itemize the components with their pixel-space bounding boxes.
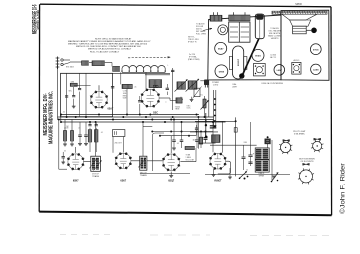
filter capacitor C13 electrolytic [248,154,252,156]
svg-text:.1: .1 [165,102,166,104]
capacitor C12 dark bar [210,125,217,127]
svg-text:ROLLER: ROLLER [196,26,204,28]
osc coil trim box T1 [176,98,182,103]
resistor R5a vertical [88,130,92,142]
ground right of V6 [229,168,231,177]
resistor R3 [63,131,66,142]
svg-text:115V: 115V [193,140,198,142]
tube V6 6V6GT output [210,153,226,169]
capacitor on shield right edge [111,86,114,88]
tuning condenser gang [229,22,250,42]
chassis tube 6X5 capsule [233,46,244,79]
wire V1 grid to loop [98,85,100,91]
IF transformer T3 1st IF [91,156,101,171]
wire segment y126.5 [143,126,152,128]
svg-text:L: L [168,65,169,67]
svg-text:6SQ7: 6SQ7 [168,180,175,182]
wire output rail y145 [210,144,257,146]
svg-text:.05: .05 [177,143,179,145]
svg-text:VOL CONT: VOL CONT [186,159,195,161]
wire left bus vertical [57,86,59,120]
external antenna terminal [57,57,59,70]
speaker basket [282,14,317,20]
resistor block R1 [122,84,132,88]
osc padder box C4 with arrow [188,81,197,90]
svg-text:40: 40 [246,170,248,172]
ground below R4 [70,143,74,145]
svg-text:20M: 20M [244,142,248,144]
wire bus B y117 [58,116,214,118]
wire V5 top [170,136,172,154]
loop coupling coil L1b [92,61,105,66]
wire bus A y114.5 [61,114,199,116]
dial scale posts [212,12,214,15]
wire T4 top [142,122,144,156]
capacitor C8 AVC [172,139,176,141]
svg-text:TRICO JRU: TRICO JRU [188,39,199,41]
power plug below chassis [204,80,209,86]
on-off switch SW1 [272,173,279,182]
svg-text:SPKR: SPKR [295,3,302,6]
wire V5 to V6 coupling [180,161,196,163]
speaker frame trapezoid [290,20,311,26]
capacitor C5a [171,69,174,71]
capacitor above R5b [95,124,98,126]
socket S1 bottom view [280,142,290,152]
svg-text:IF BOT R: IF BOT R [188,41,197,43]
dial lamp resistor box [265,139,271,144]
switch SW2 arrow left [240,171,247,178]
svg-text:10M: 10M [123,93,127,95]
svg-text:1 MEG: 1 MEG [186,157,192,159]
page frame right border [330,7,333,215]
dashed shield line with arrow [128,56,170,59]
svg-text:6SK7: 6SK7 [120,180,126,182]
tube V3 6SK7 IF amp [68,154,84,170]
page frame bottom border [39,212,331,216]
loop coil L1c [113,66,120,71]
wire vertical x272 [271,140,273,180]
chassis tube 6SK7GT circle right [274,65,285,76]
antenna trimmer circle in chassis [218,25,228,35]
wire vertical x86 [85,73,87,116]
wire V6 top leads [212,122,214,152]
speaker terminal knob [311,28,317,34]
shield inner vertical x66.6 [66,73,68,116]
tuning gang trimmer band [229,15,250,21]
chassis tube 6SK7 circle [215,65,228,78]
svg-text:.05: .05 [78,127,80,129]
resistor block R8 [212,135,221,143]
capacitor above R5a [88,124,91,126]
capacitor C1b [78,87,81,89]
svg-text:POWER: POWER [212,82,219,84]
wire osc right links [200,80,209,82]
gang trimmer posts [233,12,235,15]
capacitor C10 [195,139,199,141]
osc trim box C5 [194,88,200,97]
chassis tube 6SQ7 circle [252,49,264,61]
svg-text:OF SOCKETS: OF SOCKETS [301,161,315,163]
speaker magnet [293,26,307,34]
wire R5 bottoms [89,142,91,152]
svg-text:6SK7: 6SK7 [73,180,79,182]
svg-text:.1: .1 [141,117,142,119]
chassis tube 6SA7 circle [215,42,227,54]
V2 top pin jacks [153,85,155,87]
faint fold dashes below page [60,234,110,236]
oscillator coil box L2 [149,80,162,88]
wire V2 plate to T1 [159,97,170,99]
svg-text:2ND DET: 2ND DET [115,143,122,145]
svg-text:.05: .05 [134,87,136,89]
tube V4 6SK7 2nd IF [116,153,131,168]
svg-text:LIGHT: LIGHT [232,87,238,89]
ground below C16 [61,161,65,163]
bowtie above S3 [303,163,310,165]
capacitor left of V2 [138,100,141,102]
wire V2 top [145,72,147,89]
output transformer T5 and field coil [255,148,269,159]
osc section caps and grounds [180,97,182,100]
ground below C8 [172,147,176,149]
ground below R3 [63,143,67,145]
wire vertical x79.6 [79,73,81,88]
ground below C7 [84,143,88,145]
svg-text:6X5GT: 6X5GT [238,58,240,66]
wire det rail y135.7 [160,135,196,137]
wire power rail y132 [190,131,218,133]
wire x198.4 vertical [197,117,199,149]
wire det rail y131.5 [152,131,213,133]
arrow into chassis [203,29,212,31]
capacitor C1a [72,95,75,97]
capacitor C7 [84,134,88,136]
wire T4 to V5 [147,160,163,162]
svg-text:COIL: COIL [187,108,191,110]
tube V2 6SK7 oscillator section [142,89,160,107]
capacitor C11 dark [204,137,208,139]
svg-text:6V5G: 6V5G [255,56,261,58]
wire V4 to T4 [131,160,140,162]
tube V1 6SA7 converter [91,91,107,107]
svg-text:.01: .01 [101,132,103,134]
junction dots bottom [244,178,246,180]
V5 grid wire rounded loop [152,133,164,171]
svg-text:6V6GT: 6V6GT [214,180,222,182]
svg-text:.05: .05 [64,151,66,153]
capacitor C18 on det rail [195,127,198,129]
svg-text:L6S8: L6S8 [313,69,319,71]
svg-text:PILOT LIGHT: PILOT LIGHT [293,131,306,133]
wire bus D y122 [61,121,226,123]
osc padder box with cross [254,64,266,76]
fuse box on x235.6 [234,128,237,132]
svg-text:6 SB JEWEL: 6 SB JEWEL [294,133,305,135]
resistor R6 horizontal [185,146,195,149]
speaker cone flat disc [272,11,327,14]
capacitor on x66.6 [65,95,68,97]
wire V4 top [122,117,124,152]
wire osc rail y74.8 [145,74,170,76]
svg-text:2x 224: 2x 224 [189,54,196,56]
bus junction dots [75,116,77,118]
dial cord diagonal [242,39,259,76]
shield box around converter [61,73,113,116]
wire vertical x208.8 [208,81,210,117]
wire T3 top [95,122,97,156]
svg-text:SPKR: SPKR [259,176,265,178]
svg-text:©John F. Rider: ©John F. Rider [339,162,346,214]
svg-text:FULL OPEN: FULL OPEN [196,34,207,36]
chassis tube 6Y6 circle [310,44,321,55]
loop coupling coil L1a [82,61,89,66]
svg-text:CORD: CORD [213,85,219,87]
svg-text:BOTTOM VIEWS: BOTTOM VIEWS [299,158,315,160]
wire vertical x172.7 [172,68,174,110]
electrolytic can vertical [255,14,264,39]
chassis tube 6SK7 right circle [311,64,321,74]
svg-text:FIELD: FIELD [259,173,265,175]
capacitor C6 [78,134,82,136]
boxed capacitor C17 [113,130,125,137]
IF transformer T4 2nd IF [140,156,147,170]
capacitor C5b [166,87,169,89]
svg-text:COIL: COIL [123,91,127,93]
V6 right wire loop [218,161,231,174]
svg-text:50M: 50M [123,98,127,100]
svg-text:SET R-: SET R- [188,36,195,38]
wire V3 to T3 [84,161,91,163]
T3 tuning arrows [89,159,97,169]
chassis layout box right section [281,10,329,80]
osc padder box C3 with arrow [177,82,186,90]
capacitor C9 [180,139,184,141]
wire vertical x205.8 [205,113,207,136]
resistor R9 vertical [199,137,202,144]
wire bus C y119.5 [58,119,214,121]
power cord twisted pair [213,90,215,128]
svg-text:6TE8: 6TE8 [219,71,225,73]
wire left vertical x57.5 [57,65,59,86]
wire vertical x73.7 [73,87,75,96]
svg-text:TRIM: TRIM [175,109,180,111]
pilot light bowtie above S1 [283,140,290,142]
ground below C6 [78,143,82,145]
svg-text:MAGUIRE INDUSTRIES INC.: MAGUIRE INDUSTRIES INC. [48,91,55,144]
svg-text:L6ST: L6ST [277,70,283,72]
wire rail y143.1 [198,142,216,144]
loop winding tap ticks [121,69,123,73]
filter capacitor C14 electrolytic [248,161,252,163]
wire vertical x235.6 [235,117,237,176]
pilot bowtie above S2 [314,138,321,140]
volume control R2 with arrow [203,99,206,108]
svg-text:.02: .02 [63,112,65,114]
capacitor C15 tone [242,156,246,158]
ground C1a [72,105,76,107]
wire power rail y121 right [195,120,236,122]
svg-text:MODEL 9-1065: MODEL 9-1065 [36,10,41,29]
svg-text:600 KC: 600 KC [196,29,203,31]
wire left edge down [58,120,60,170]
socket S2 bottom view [313,141,322,150]
resistor R0 in shield [70,83,77,86]
bottom tier wire [140,173,190,175]
wire bottom left horizontal [59,168,67,170]
dial cord end knob [239,73,244,78]
audio transformer box [292,62,301,74]
svg-text:1ST I.F.: 1ST I.F. [92,174,99,176]
wire C17 to V4 [112,137,114,153]
ground below V6 [213,169,215,175]
wire top rail y73 [61,72,171,74]
chassis layout box left section [208,15,281,80]
socket S3 bottom view [300,170,313,183]
tube V5 6SQ7 det-avc-af [163,154,179,170]
wire horizontal y85.3 [74,84,91,86]
ground under x272 [272,175,276,177]
capacitor C16 left [62,156,65,158]
ground below V5 [170,172,172,176]
svg-text:C4 306: C4 306 [270,55,276,57]
svg-text:6Y6G: 6Y6G [313,49,319,51]
wire R1 down [120,72,122,84]
loop antenna winding humps [122,66,165,69]
svg-text:VOL: VOL [200,95,203,97]
svg-text:T4050: T4050 [175,106,180,108]
page frame top border [40,4,331,7]
wire hump baseline y72.3 [122,71,165,73]
dial scale hatched bar [210,15,222,21]
wire V3 top [75,147,77,153]
svg-text:10M: 10M [71,82,75,84]
resistor R4 [70,131,73,142]
T4 tuning arrows [138,158,145,167]
det rail junction dots [151,131,153,133]
svg-text:IF TRIM-: IF TRIM- [189,57,197,59]
resistor R5b vertical [94,130,98,142]
page frame left border [38,4,40,211]
